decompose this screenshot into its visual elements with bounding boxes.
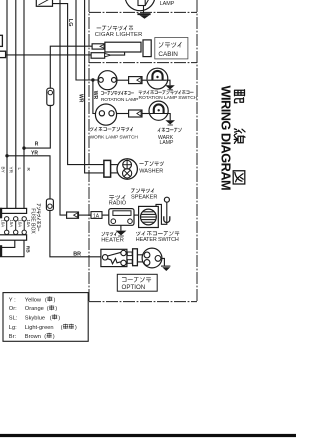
svg-text:ROTATION LAMP SWITCH: ROTATION LAMP SWITCH (139, 95, 198, 101)
scan bar bottom (0, 434, 296, 437)
connector cigar lighter upper (92, 44, 105, 49)
connector rotation row (129, 77, 142, 84)
svg-text:(: ( (50, 315, 52, 321)
svg-text:10A: 10A (18, 220, 23, 228)
cabin enclosure bottom border (89, 301, 197, 303)
svg-text:Br:: Br: (9, 334, 17, 340)
node junction dot rotation feed (91, 78, 94, 81)
wire switch to connector (117, 113, 129, 115)
svg-text:(: ( (47, 306, 49, 312)
connector (top edge) with diagonal (36, 0, 52, 6)
scan mark left edge lower (0, 245, 2, 257)
svg-text:WORK LAMP SWITCH: WORK LAMP SWITCH (90, 135, 139, 141)
antenna tip (164, 197, 169, 202)
svg-text:WASHER: WASHER (139, 168, 163, 174)
svg-text:WR: WR (77, 94, 83, 103)
connector plug on antenna lead (164, 216, 170, 222)
svg-text:15A: 15A (9, 220, 14, 228)
wire YR branch (7, 156, 50, 199)
svg-text:(: ( (44, 334, 46, 340)
legend box (3, 293, 88, 342)
ground (rotation lamp switch) (167, 80, 170, 85)
cabin enclosure left border (88, 0, 90, 302)
wire lower return into body (111, 52, 125, 55)
label rotation lamp japanese (101, 91, 134, 95)
svg-text:Yellow: Yellow (25, 297, 42, 303)
wire fuse box output inner (0, 240, 15, 247)
svg-text:Light-green: Light-green (25, 325, 54, 331)
svg-text:SL:: SL: (9, 315, 18, 321)
wire branch to work lamp switch (93, 80, 96, 114)
svg-text:Brown: Brown (25, 334, 41, 340)
ground (lamp) (143, 6, 145, 14)
heater unit (101, 249, 127, 266)
svg-text:FUSE BOX: FUSE BOX (30, 208, 36, 234)
svg-text:BY: BY (1, 167, 6, 173)
wire radio to speaker (134, 214, 139, 216)
wire BR to heater (50, 210, 101, 256)
heater switch (142, 248, 162, 268)
svg-text:): ) (75, 325, 77, 331)
work lamp switch (95, 104, 116, 125)
svg-text:HEATER SWITCH: HEATER SWITCH (136, 237, 179, 243)
radio unit (109, 209, 134, 226)
connector (left edge, upper) (0, 35, 2, 46)
wire connector to switch (142, 79, 148, 81)
wire rotation-lamp feed vertical (76, 0, 98, 80)
svg-text:Orange: Orange (25, 306, 44, 312)
wires connector to heater switch (137, 254, 144, 256)
svg-text:(: ( (61, 325, 63, 331)
wire speaker to antenna (156, 202, 167, 224)
wire connector to lamp (142, 113, 150, 115)
svg-text:BR: BR (73, 252, 81, 258)
connector radio feed (67, 212, 79, 218)
svg-text:): ) (54, 297, 56, 303)
svg-text:R: R (35, 142, 39, 148)
label heater japanese (102, 232, 117, 236)
svg-text:LAMP: LAMP (160, 1, 175, 7)
wire R vertical feed (23, 0, 25, 209)
svg-text:Lg:: Lg: (9, 325, 17, 331)
fuse box top bar (0, 208, 27, 213)
label heater switch japanese (136, 232, 179, 236)
svg-text:Y :: Y : (9, 297, 16, 303)
connector (left edge, lower) (0, 51, 6, 57)
wire to 1A fuse (79, 214, 92, 216)
svg-text:LG: LG (67, 19, 73, 27)
title kanji 配 (rotated) (233, 90, 245, 184)
label option japanese (122, 277, 151, 282)
ground (heater switch) (161, 258, 165, 265)
washer motor (117, 159, 137, 179)
wire WR vertical (to washer) (85, 0, 104, 173)
ground (radio) (120, 225, 122, 230)
svg-text:1A: 1A (93, 213, 100, 219)
svg-text:): ) (53, 334, 55, 340)
svg-text:LAMP: LAMP (160, 140, 174, 146)
scan mark left edge upper (0, 208, 2, 219)
cabin divider below cigar lighter (89, 62, 197, 64)
label cigar lighter japanese (97, 26, 133, 30)
label work lamp japanese (158, 128, 182, 132)
option label box (117, 274, 157, 291)
connector work lamp row (129, 110, 142, 117)
svg-text:CIGAR LIGHTER: CIGAR LIGHTER (95, 32, 143, 38)
label fuse box (rotated japanese) (37, 204, 40, 231)
cabin enclosure right border (196, 0, 198, 302)
label washer japanese (140, 162, 164, 166)
wire fuse box output outer (RB) (0, 240, 24, 257)
cabin enclosure top border (89, 11, 197, 13)
svg-text:10A: 10A (1, 220, 6, 228)
fuse 10A #1 (5, 217, 9, 235)
wire BY vertical feed (6, 0, 8, 209)
wire 1A to radio (102, 214, 109, 216)
label radio japanese (110, 195, 126, 199)
svg-text:Skyblue: Skyblue (25, 315, 45, 321)
svg-text:SPEAKER: SPEAKER (131, 195, 157, 201)
connector washer (104, 160, 111, 177)
work lamp (149, 101, 168, 120)
label rotation lamp switch japanese (139, 91, 193, 95)
fuse F1 inline on R branch (47, 88, 54, 105)
svg-text:RB: RB (25, 246, 31, 253)
fuse 10A #3 (22, 217, 26, 235)
svg-text:WR: WR (92, 91, 98, 100)
node junction dot on BY wire (5, 154, 8, 157)
svg-text:): ) (55, 306, 57, 312)
svg-text:L: L (17, 168, 22, 171)
wire from lower connector to cigar lighter (6, 54, 92, 56)
svg-text:YR: YR (8, 167, 13, 174)
wire radio feed vertical (60, 0, 67, 215)
svg-text:HEATER: HEATER (101, 237, 124, 243)
svg-text:): ) (58, 315, 60, 321)
rotation lamp (98, 71, 117, 90)
svg-text:WIRING DIAGRAM: WIRING DIAGRAM (219, 86, 234, 191)
connector heater to switch (127, 252, 132, 256)
wires connector to washer (111, 164, 119, 166)
svg-text:ROTATION LAMP: ROTATION LAMP (101, 97, 138, 103)
svg-text:RADIO: RADIO (109, 201, 127, 207)
wire LG vertical (to washer) (53, 4, 104, 165)
fuse 15A #2 (14, 217, 18, 235)
cigar lighter body (105, 42, 141, 52)
node junction dot on R wire (22, 146, 25, 149)
speaker unit (139, 206, 159, 227)
cabin label box (155, 38, 188, 59)
svg-text:CABIN: CABIN (158, 51, 178, 58)
rotation lamp switch (147, 68, 168, 89)
cigar lighter end cap (143, 40, 151, 57)
wire lamp to connector (116, 79, 128, 81)
wire R branch to cigar lighter (24, 106, 50, 149)
svg-text:YR: YR (31, 150, 38, 156)
label cabin japanese (159, 42, 181, 47)
ground (work lamp) (168, 114, 170, 121)
fuse box bottom bar (0, 235, 27, 240)
connector cigar lighter lower (91, 53, 105, 59)
fuse F2 inline on YR/BR branch (46, 199, 53, 211)
lamp (top, cut off) (125, 0, 155, 11)
fuse 1A box (91, 212, 102, 219)
svg-text:OPTION: OPTION (122, 284, 146, 291)
wire L vertical feed (15, 0, 17, 209)
svg-text:Or:: Or: (9, 306, 17, 312)
label work lamp switch japanese (90, 127, 133, 131)
label speaker japanese (132, 189, 154, 193)
svg-text:(: ( (45, 297, 47, 303)
